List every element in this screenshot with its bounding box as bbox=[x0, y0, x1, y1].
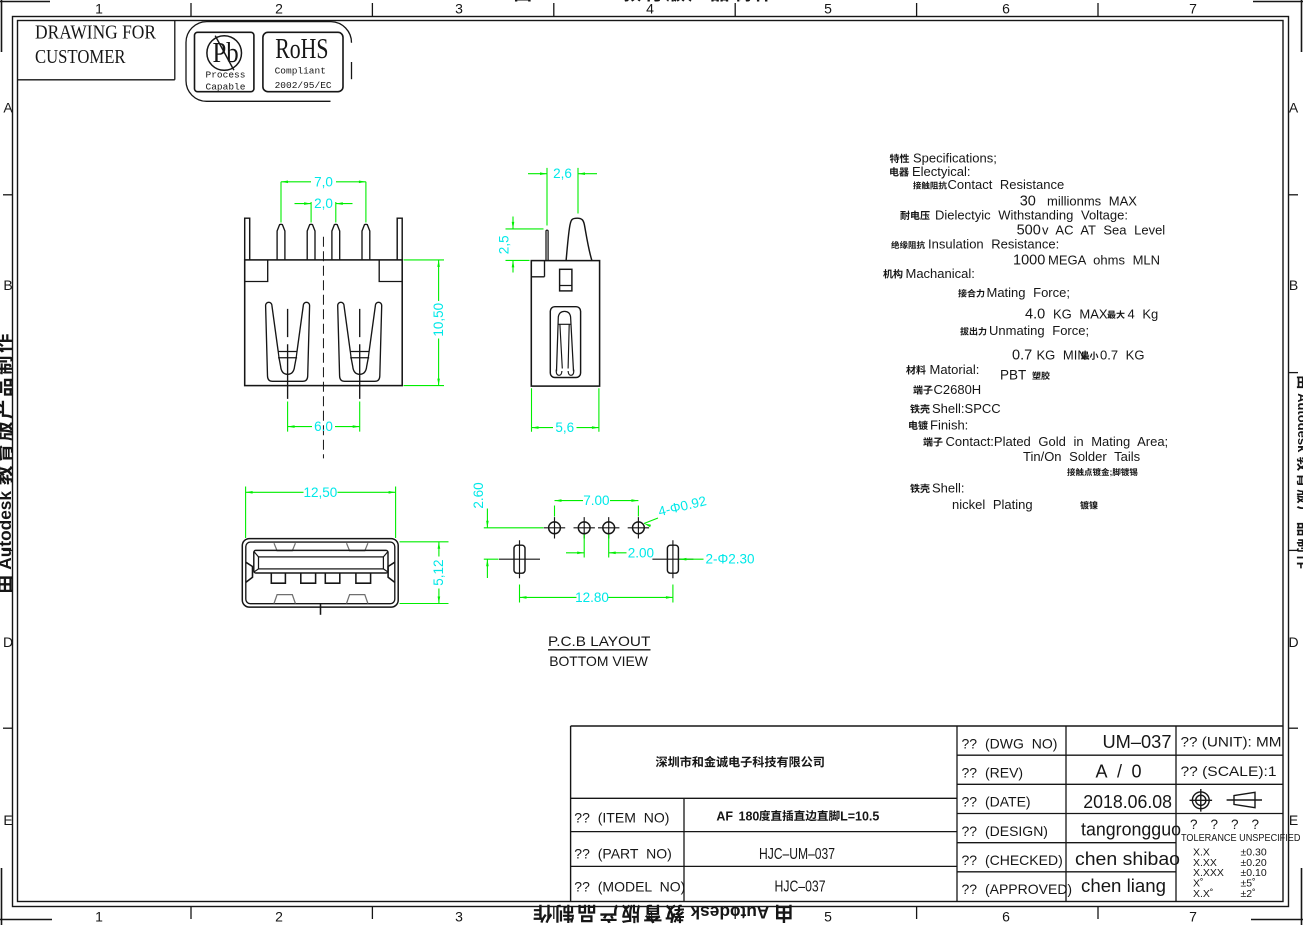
svg-text:1: 1 bbox=[95, 1, 103, 17]
svg-text:MEGA ohms MLN: MEGA ohms MLN bbox=[1048, 252, 1160, 267]
svg-text:HJC–037: HJC–037 bbox=[775, 878, 826, 895]
svg-text:;: ; bbox=[1110, 467, 1113, 477]
svg-text:?: ? bbox=[1231, 817, 1239, 832]
svg-text:1000: 1000 bbox=[1013, 252, 1045, 268]
svg-text:7: 7 bbox=[1189, 1, 1197, 17]
svg-text:10,50: 10,50 bbox=[431, 303, 446, 337]
svg-text:4-Φ0.92: 4-Φ0.92 bbox=[657, 493, 708, 519]
svg-text:2.60: 2.60 bbox=[471, 482, 486, 508]
svg-text:2,5: 2,5 bbox=[497, 235, 512, 254]
svg-text:0.7 KG: 0.7 KG bbox=[1100, 348, 1144, 363]
svg-text:Capable: Capable bbox=[206, 81, 246, 92]
svg-text:PBT: PBT bbox=[1000, 368, 1026, 383]
svg-text:Shell:SPCC: Shell:SPCC bbox=[932, 401, 1001, 416]
svg-text:A/0: A/0 bbox=[1096, 761, 1142, 781]
svg-text:X.X˚: X.X˚ bbox=[1193, 888, 1213, 900]
svg-text:Autodesk: Autodesk bbox=[0, 491, 15, 570]
svg-text:RoHS: RoHS bbox=[275, 33, 328, 65]
svg-text:BOTTOM VIEW: BOTTOM VIEW bbox=[549, 653, 648, 669]
svg-text:?? (MODEL NO): ?? (MODEL NO) bbox=[574, 878, 685, 894]
svg-text:?? (DATE): ?? (DATE) bbox=[962, 794, 1031, 810]
svg-text:2.00: 2.00 bbox=[628, 545, 654, 560]
svg-text:Autodesk: Autodesk bbox=[1295, 393, 1303, 453]
svg-text:Autodesk: Autodesk bbox=[537, 0, 616, 4]
svg-text:?? (DESIGN): ?? (DESIGN) bbox=[962, 823, 1048, 839]
svg-text:12,50: 12,50 bbox=[304, 485, 338, 500]
svg-text:DRAWING FOR: DRAWING FOR bbox=[35, 21, 156, 43]
svg-text:2018.06.08: 2018.06.08 bbox=[1083, 792, 1172, 812]
svg-text:4: 4 bbox=[646, 1, 654, 17]
svg-text:7,0: 7,0 bbox=[314, 174, 333, 189]
svg-text:3: 3 bbox=[455, 1, 463, 17]
svg-text:2002/95/EC: 2002/95/EC bbox=[275, 80, 332, 91]
svg-text:Contact:Plated Gold in Mating: Contact:Plated Gold in Mating Area; bbox=[946, 434, 1169, 449]
svg-text:?: ? bbox=[1211, 817, 1219, 832]
svg-text:?? (REV): ?? (REV) bbox=[962, 764, 1024, 780]
svg-text:?? (PART NO): ?? (PART NO) bbox=[574, 846, 671, 862]
svg-text:0.7: 0.7 bbox=[1012, 348, 1032, 364]
svg-text:1: 1 bbox=[95, 909, 103, 925]
svg-text:6.0: 6.0 bbox=[314, 419, 333, 434]
svg-text:A: A bbox=[3, 100, 13, 116]
svg-text:Process: Process bbox=[206, 69, 246, 80]
svg-text:?? (SCALE):1: ?? (SCALE):1 bbox=[1181, 763, 1277, 779]
svg-text:millionms MAX: millionms MAX bbox=[1047, 193, 1137, 208]
svg-text:CUSTOMER: CUSTOMER bbox=[35, 46, 126, 68]
svg-text:Compliant: Compliant bbox=[275, 66, 326, 77]
svg-text:7: 7 bbox=[1189, 909, 1197, 925]
svg-text:12.80: 12.80 bbox=[575, 590, 609, 605]
svg-text:Matorial:: Matorial: bbox=[930, 362, 980, 377]
svg-text:Machanical:: Machanical: bbox=[906, 266, 975, 281]
svg-text:Finish:: Finish: bbox=[930, 418, 968, 433]
svg-text:2: 2 bbox=[275, 909, 283, 925]
svg-text:5,12: 5,12 bbox=[431, 559, 446, 585]
svg-text:?? (DWG NO): ?? (DWG NO) bbox=[962, 735, 1058, 751]
svg-text:2-Φ2.30: 2-Φ2.30 bbox=[706, 551, 755, 566]
svg-text:E: E bbox=[3, 812, 12, 828]
svg-text:Mating Force;: Mating Force; bbox=[987, 285, 1070, 300]
svg-text:7.00: 7.00 bbox=[583, 493, 609, 508]
svg-text:2: 2 bbox=[275, 1, 283, 17]
svg-text:?? (ITEM NO): ?? (ITEM NO) bbox=[574, 810, 669, 826]
svg-text:6: 6 bbox=[1002, 1, 1010, 17]
svg-text:chen shibao: chen shibao bbox=[1075, 849, 1180, 869]
svg-text:Insulation Resistance:: Insulation Resistance: bbox=[928, 237, 1059, 252]
svg-text:UM–037: UM–037 bbox=[1103, 732, 1172, 752]
svg-text:5: 5 bbox=[824, 909, 832, 925]
svg-text:?: ? bbox=[1190, 817, 1198, 832]
svg-text:6: 6 bbox=[1002, 909, 1010, 925]
svg-text:chen liang: chen liang bbox=[1081, 876, 1166, 896]
svg-text:P.C.B LAYOUT: P.C.B LAYOUT bbox=[548, 633, 651, 649]
svg-text:A: A bbox=[1289, 100, 1299, 116]
svg-text:AF 180: AF 180 bbox=[716, 809, 759, 823]
svg-text:±2˚: ±2˚ bbox=[1241, 888, 1256, 900]
svg-text:?: ? bbox=[1252, 817, 1260, 832]
svg-text:?? (CHECKED): ?? (CHECKED) bbox=[962, 852, 1063, 868]
svg-text:tangrongguo: tangrongguo bbox=[1081, 820, 1181, 840]
svg-text:2,0: 2,0 bbox=[314, 196, 333, 211]
svg-text:C2680H: C2680H bbox=[934, 382, 982, 397]
svg-text:5,6: 5,6 bbox=[555, 420, 574, 435]
svg-text:nickel Plating: nickel Plating bbox=[952, 497, 1033, 512]
svg-text:3: 3 bbox=[455, 909, 463, 925]
svg-text:2,6: 2,6 bbox=[553, 166, 572, 181]
svg-text:Dielectyic Withstanding Voltag: Dielectyic Withstanding Voltage: bbox=[935, 208, 1128, 223]
svg-text:Unmating Force;: Unmating Force; bbox=[989, 323, 1089, 338]
svg-text:L=10.5: L=10.5 bbox=[840, 809, 879, 823]
svg-text:?? (UNIT): MM: ?? (UNIT): MM bbox=[1181, 733, 1282, 749]
svg-text:v AC AT Sea Level: v AC AT Sea Level bbox=[1042, 222, 1165, 237]
svg-text:D: D bbox=[3, 634, 13, 650]
svg-text:Shell:: Shell: bbox=[932, 481, 965, 496]
svg-text:TOLERANCE UNSPECIFIED: TOLERANCE UNSPECIFIED bbox=[1181, 833, 1300, 845]
svg-text:5: 5 bbox=[824, 1, 832, 17]
svg-text:4 Kg: 4 Kg bbox=[1128, 307, 1159, 322]
svg-text:Autodesk: Autodesk bbox=[690, 903, 769, 923]
svg-text:E: E bbox=[1289, 812, 1298, 828]
svg-text:KG MAX: KG MAX bbox=[1053, 307, 1108, 322]
svg-text:HJC–UM–037: HJC–UM–037 bbox=[759, 846, 835, 863]
svg-text:4.0: 4.0 bbox=[1025, 307, 1045, 323]
svg-text:Contact Resistance: Contact Resistance bbox=[948, 177, 1065, 192]
svg-text:Pb: Pb bbox=[213, 37, 239, 69]
svg-text:B: B bbox=[1289, 277, 1298, 293]
svg-text:Tin/On Solder Tails: Tin/On Solder Tails bbox=[1023, 449, 1141, 464]
svg-text:?? (APPROVED): ?? (APPROVED) bbox=[962, 881, 1073, 897]
svg-text:B: B bbox=[3, 277, 12, 293]
svg-text:D: D bbox=[1288, 634, 1298, 650]
